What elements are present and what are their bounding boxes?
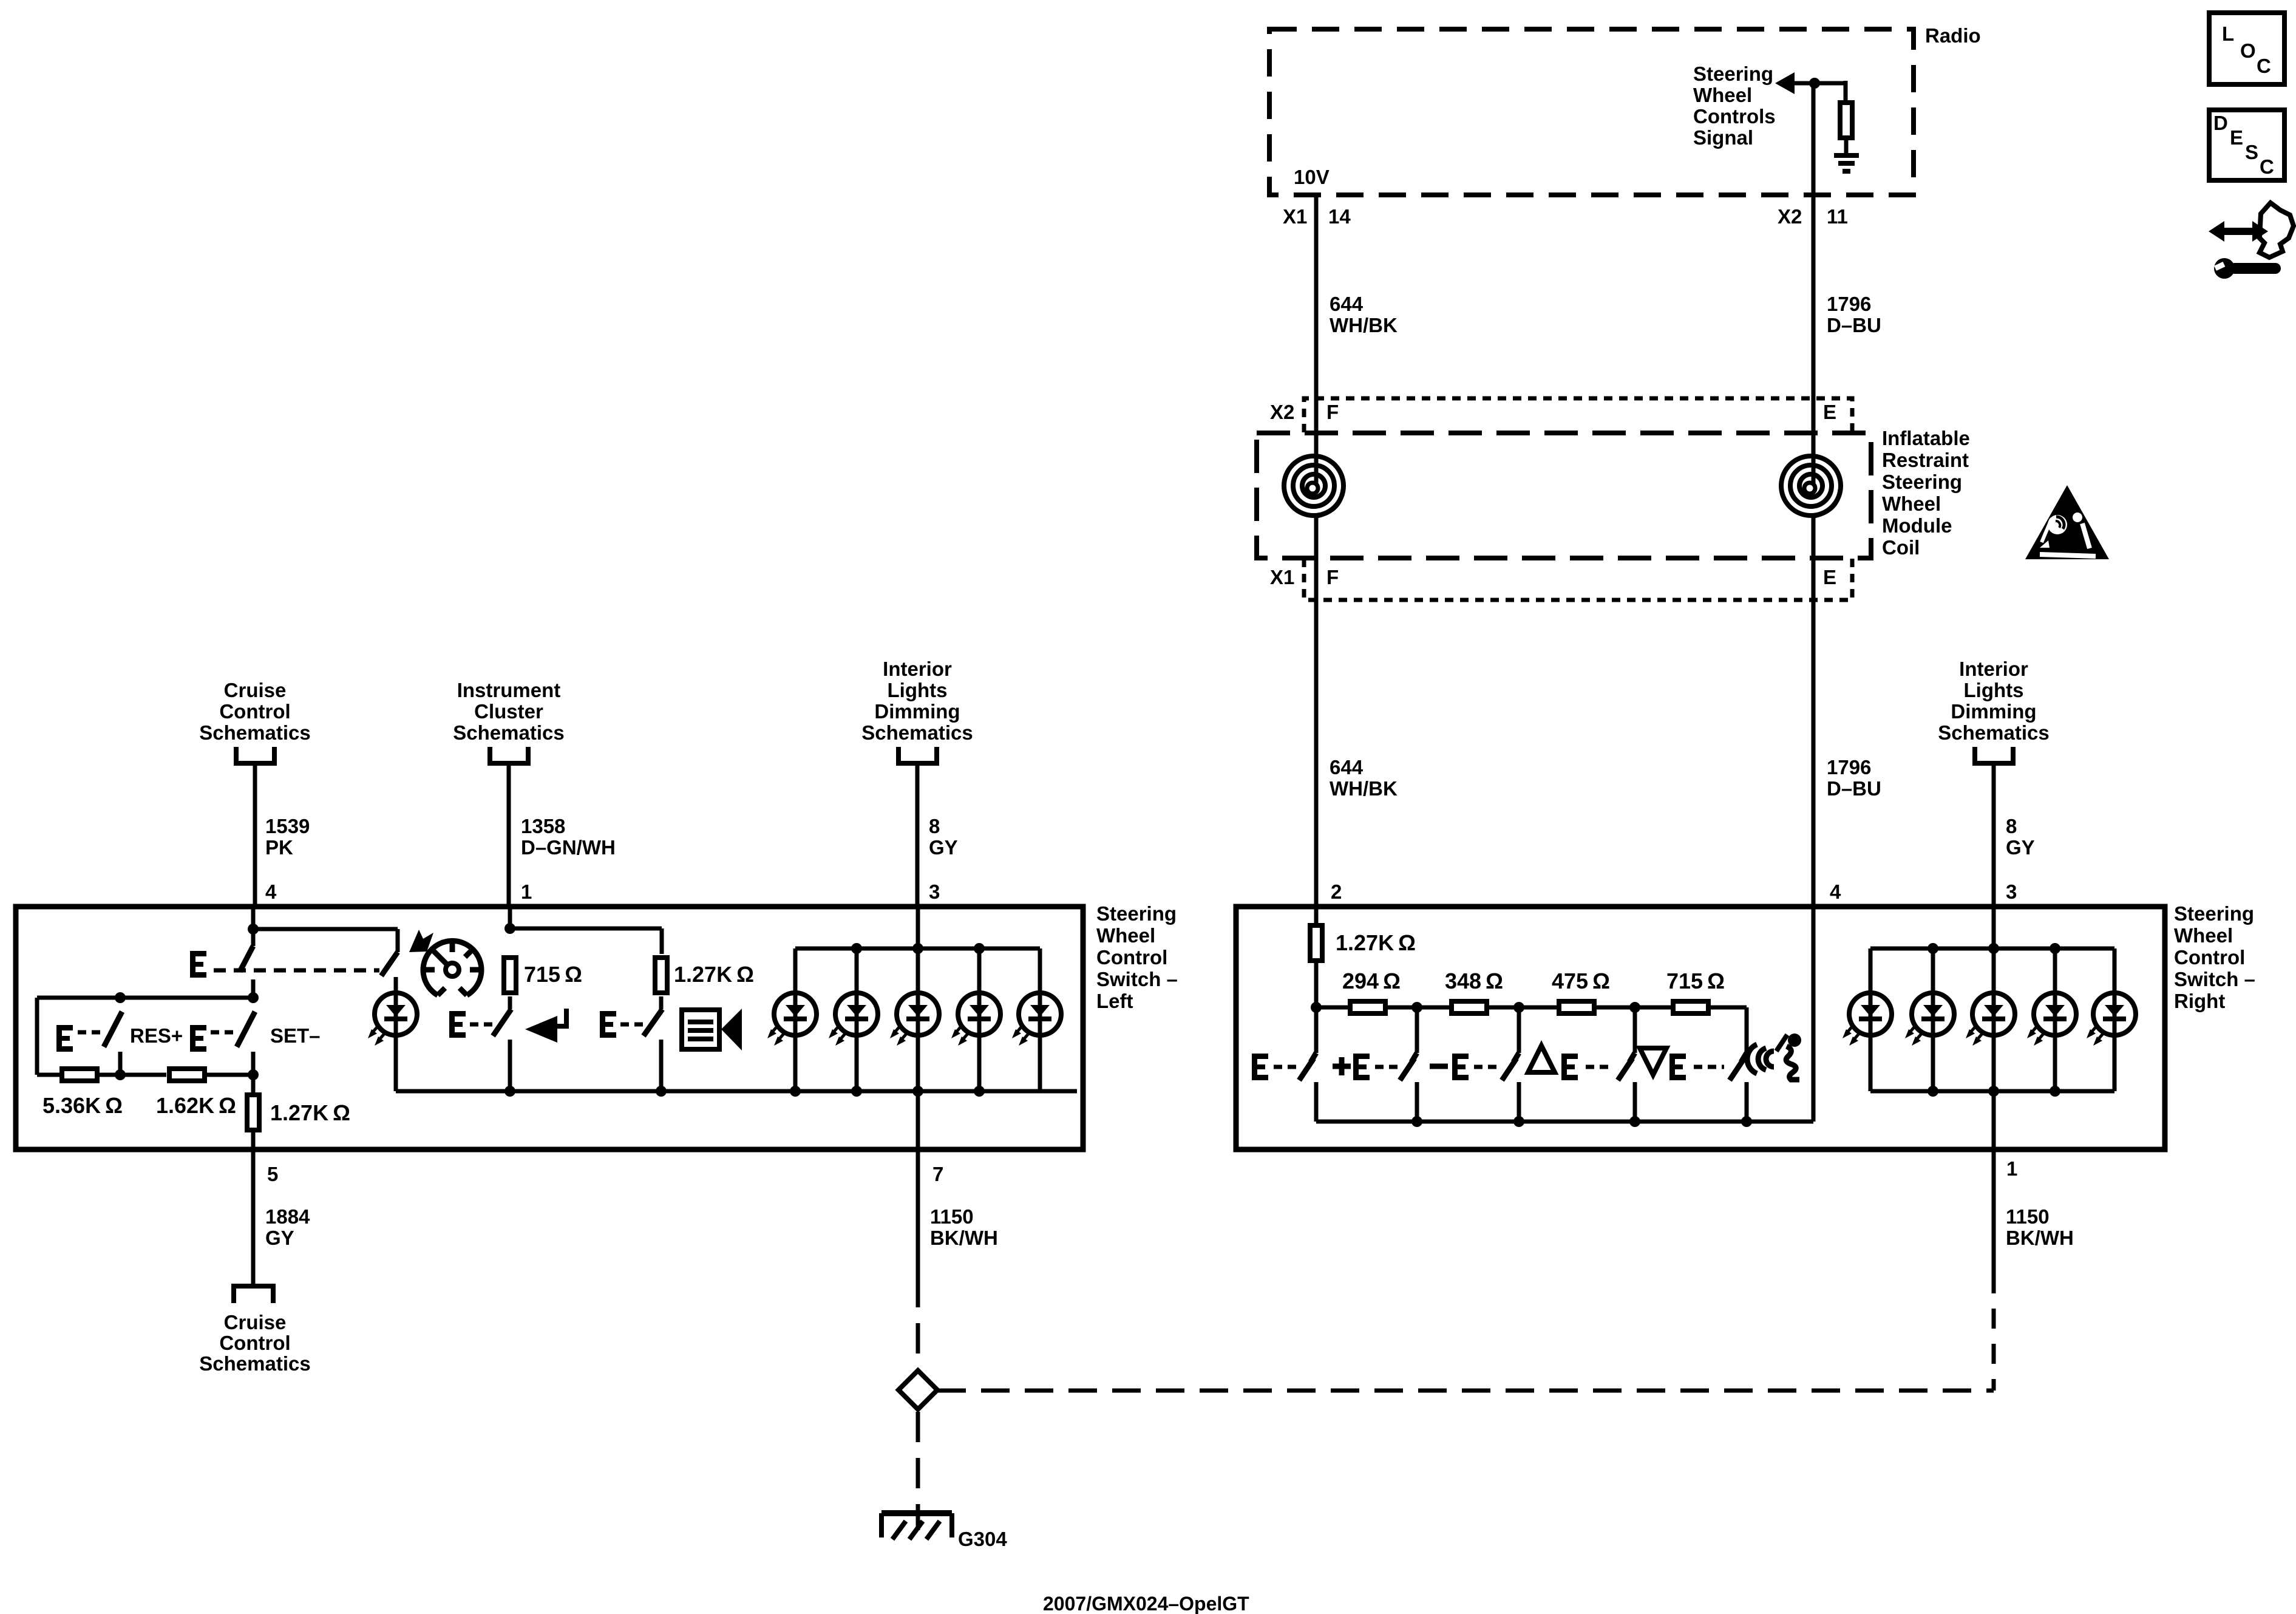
svg-text:Steering: Steering bbox=[1096, 902, 1177, 925]
svg-text:Switch –: Switch – bbox=[1096, 968, 1178, 990]
svg-text:8: 8 bbox=[929, 815, 940, 837]
svg-text:1.27KΩ: 1.27KΩ bbox=[1336, 930, 1416, 955]
svg-text:644: 644 bbox=[1330, 756, 1364, 778]
svg-text:X1: X1 bbox=[1270, 566, 1294, 588]
svg-text:Dimming: Dimming bbox=[1951, 700, 2036, 723]
svg-text:Right: Right bbox=[2174, 990, 2225, 1012]
svg-text:RES+: RES+ bbox=[130, 1024, 183, 1047]
svg-text:PK: PK bbox=[265, 836, 293, 859]
svg-text:7: 7 bbox=[932, 1163, 943, 1185]
svg-text:X1: X1 bbox=[1283, 205, 1307, 228]
svg-text:1796: 1796 bbox=[1827, 756, 1871, 778]
svg-text:Left: Left bbox=[1096, 990, 1133, 1012]
svg-text:GY: GY bbox=[2006, 836, 2035, 859]
svg-text:2007/GMX024–OpelGT: 2007/GMX024–OpelGT bbox=[1043, 1593, 1249, 1614]
svg-text:1539: 1539 bbox=[265, 815, 310, 837]
svg-text:Cruise: Cruise bbox=[224, 1311, 287, 1333]
svg-text:Controls: Controls bbox=[1693, 105, 1776, 128]
svg-text:Steering: Steering bbox=[2174, 902, 2254, 925]
svg-text:Inflatable: Inflatable bbox=[1882, 427, 1970, 449]
svg-text:715Ω: 715Ω bbox=[524, 962, 582, 987]
svg-text:Schematics: Schematics bbox=[199, 1352, 310, 1375]
svg-text:1.62KΩ: 1.62KΩ bbox=[156, 1093, 236, 1118]
svg-text:Restraint: Restraint bbox=[1882, 449, 1969, 471]
svg-text:1: 1 bbox=[2006, 1157, 2017, 1180]
svg-text:1150: 1150 bbox=[2006, 1205, 2050, 1228]
svg-text:1358: 1358 bbox=[521, 815, 565, 837]
svg-text:BK/WH: BK/WH bbox=[2006, 1227, 2074, 1249]
svg-text:1150: 1150 bbox=[930, 1205, 974, 1228]
svg-text:X2: X2 bbox=[1778, 205, 1802, 228]
svg-text:644: 644 bbox=[1330, 293, 1364, 315]
svg-text:SET–: SET– bbox=[270, 1024, 321, 1047]
svg-text:Control: Control bbox=[219, 1332, 290, 1354]
svg-text:Interior: Interior bbox=[883, 658, 952, 680]
svg-text:F: F bbox=[1326, 401, 1339, 423]
svg-text:Wheel: Wheel bbox=[1882, 492, 1941, 515]
svg-text:Wheel: Wheel bbox=[1096, 924, 1155, 947]
svg-text:Lights: Lights bbox=[888, 679, 948, 701]
svg-text:Schematics: Schematics bbox=[1938, 721, 2049, 744]
svg-text:3: 3 bbox=[929, 880, 940, 903]
svg-text:348Ω: 348Ω bbox=[1445, 969, 1503, 993]
svg-text:C: C bbox=[2260, 155, 2274, 178]
svg-text:WH/BK: WH/BK bbox=[1330, 777, 1398, 800]
svg-text:BK/WH: BK/WH bbox=[930, 1227, 998, 1249]
svg-text:Control: Control bbox=[2174, 946, 2245, 969]
svg-text:4: 4 bbox=[265, 880, 277, 903]
svg-text:5.36KΩ: 5.36KΩ bbox=[42, 1093, 123, 1118]
svg-text:Interior: Interior bbox=[1959, 658, 2028, 680]
svg-text:Cluster: Cluster bbox=[474, 700, 543, 723]
svg-text:294Ω: 294Ω bbox=[1342, 969, 1401, 993]
svg-text:1796: 1796 bbox=[1827, 293, 1871, 315]
svg-text:475Ω: 475Ω bbox=[1552, 969, 1610, 993]
svg-text:3: 3 bbox=[2006, 880, 2017, 903]
svg-text:Wheel: Wheel bbox=[2174, 924, 2233, 947]
svg-text:Control: Control bbox=[1096, 946, 1167, 969]
svg-text:G304: G304 bbox=[958, 1528, 1007, 1550]
svg-text:1: 1 bbox=[521, 880, 532, 903]
svg-text:Cruise: Cruise bbox=[224, 679, 287, 701]
svg-text:Schematics: Schematics bbox=[861, 721, 973, 744]
svg-text:D–BU: D–BU bbox=[1827, 777, 1881, 800]
svg-text:WH/BK: WH/BK bbox=[1330, 314, 1398, 336]
svg-text:Control: Control bbox=[219, 700, 290, 723]
svg-text:715Ω: 715Ω bbox=[1666, 969, 1725, 993]
svg-text:Schematics: Schematics bbox=[199, 721, 310, 744]
svg-text:GY: GY bbox=[929, 836, 958, 859]
svg-text:Dimming: Dimming bbox=[874, 700, 960, 723]
svg-text:E: E bbox=[2230, 126, 2243, 149]
svg-text:5: 5 bbox=[267, 1163, 278, 1185]
svg-text:Radio: Radio bbox=[1925, 24, 1981, 47]
svg-text:11: 11 bbox=[1827, 205, 1848, 228]
svg-text:Steering: Steering bbox=[1882, 471, 1962, 493]
svg-text:1.27KΩ: 1.27KΩ bbox=[270, 1100, 350, 1125]
svg-text:D: D bbox=[2213, 112, 2228, 134]
svg-text:L: L bbox=[2222, 22, 2234, 45]
svg-text:1.27KΩ: 1.27KΩ bbox=[674, 962, 754, 987]
svg-text:Signal: Signal bbox=[1693, 126, 1753, 149]
svg-text:8: 8 bbox=[2006, 815, 2017, 837]
svg-text:E: E bbox=[1823, 401, 1836, 423]
svg-text:S: S bbox=[2245, 141, 2258, 163]
svg-text:Wheel: Wheel bbox=[1693, 84, 1752, 106]
svg-text:Switch –: Switch – bbox=[2174, 968, 2255, 990]
svg-text:Lights: Lights bbox=[1964, 679, 2024, 701]
svg-text:F: F bbox=[1326, 566, 1339, 588]
svg-text:O: O bbox=[2240, 39, 2256, 62]
svg-text:14: 14 bbox=[1328, 205, 1351, 228]
svg-text:4: 4 bbox=[1830, 880, 1841, 903]
svg-text:Instrument: Instrument bbox=[457, 679, 561, 701]
svg-text:Schematics: Schematics bbox=[453, 721, 564, 744]
svg-text:10V: 10V bbox=[1294, 166, 1330, 188]
svg-text:C: C bbox=[2257, 55, 2271, 77]
svg-text:D–BU: D–BU bbox=[1827, 314, 1881, 336]
svg-text:GY: GY bbox=[265, 1227, 294, 1249]
svg-text:X2: X2 bbox=[1270, 401, 1294, 423]
svg-text:E: E bbox=[1823, 566, 1836, 588]
svg-text:D–GN/WH: D–GN/WH bbox=[521, 836, 616, 859]
svg-text:Steering: Steering bbox=[1693, 63, 1773, 85]
svg-text:2: 2 bbox=[1331, 880, 1342, 903]
svg-text:Coil: Coil bbox=[1882, 536, 1920, 559]
svg-text:Module: Module bbox=[1882, 514, 1952, 537]
svg-text:1884: 1884 bbox=[265, 1205, 310, 1228]
